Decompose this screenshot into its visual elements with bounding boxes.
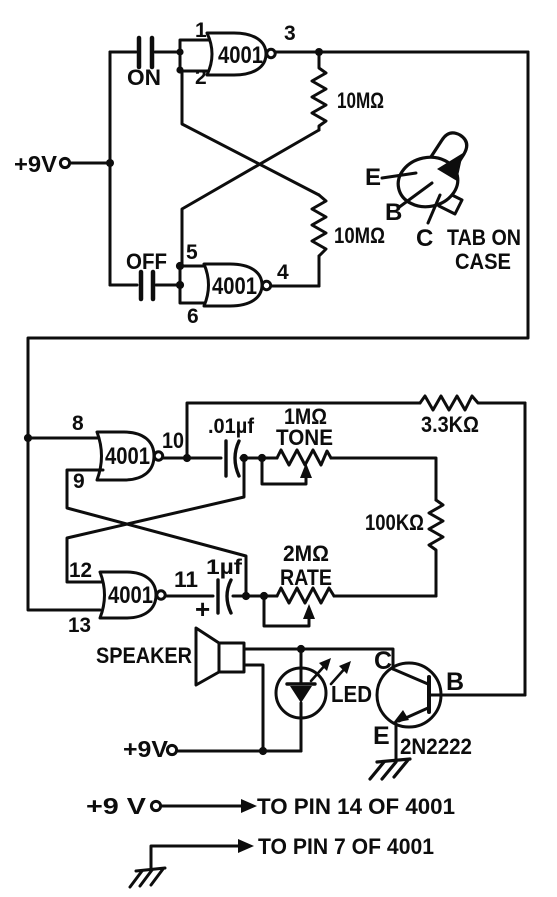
- svg-text:B: B: [385, 199, 402, 226]
- potentiometer 2M RATE: [264, 541, 334, 626]
- wire: pin9 cross W2 to 1uf junction: [67, 470, 246, 596]
- resistor 3.3K: [420, 396, 525, 410]
- wire: cross X1 from gate1 pin2 to R2: [182, 71, 319, 195]
- wire: pin4 output up to R2: [272, 256, 319, 286]
- node: W1 junction: [240, 454, 248, 462]
- node: cap junction: [176, 281, 184, 289]
- capacitor ON: [127, 38, 161, 90]
- svg-text:4001: 4001: [108, 582, 153, 609]
- node: pin8 branch: [24, 434, 32, 442]
- svg-text:SPEAKER: SPEAKER: [96, 643, 192, 668]
- capacitor C2 1uf: [195, 556, 243, 624]
- wire: left supply rail top section: [109, 52, 112, 285]
- svg-text:8: 8: [72, 412, 84, 435]
- wire: OFF cap leads: [110, 284, 178, 287]
- node: riser junction: [183, 454, 191, 462]
- svg-text:C: C: [374, 647, 392, 675]
- speaker: [96, 628, 244, 685]
- op-amp U1c NOR gate 4001: [97, 432, 163, 480]
- svg-text:E: E: [365, 164, 381, 191]
- wire: speaker bottom to +9V rail: [244, 665, 263, 751]
- wire: cross W1 to gate4 pin12: [67, 458, 244, 582]
- wire: pin8: [28, 437, 103, 440]
- svg-text:1µf: 1µf: [206, 556, 243, 579]
- svg-text:9: 9: [73, 470, 85, 493]
- op-amp U1d NOR gate 4001: [100, 572, 165, 618]
- resistor 100K: [429, 500, 443, 596]
- node: RATE wiper junction: [260, 592, 268, 600]
- op-amp U1a NOR gate 4001: [207, 33, 275, 75]
- svg-text:TAB ON: TAB ON: [447, 225, 521, 250]
- svg-text:C: C: [416, 225, 433, 252]
- svg-text:TO PIN 7 OF 4001: TO PIN 7 OF 4001: [258, 834, 434, 859]
- transistor Q1 2N2222: [373, 647, 525, 760]
- ground note: to pin 7: [151, 834, 434, 869]
- svg-text:6: 6: [187, 305, 199, 328]
- svg-text:B: B: [446, 668, 464, 696]
- svg-text:2: 2: [195, 66, 207, 89]
- svg-text:13: 13: [68, 614, 91, 637]
- svg-text:10MΩ: 10MΩ: [337, 88, 384, 113]
- node: speaker return junction: [259, 747, 267, 755]
- wire: gate1 input bracket: [180, 40, 213, 71]
- svg-text:+9V: +9V: [14, 151, 58, 177]
- wire: pin11 output to 1uf: [166, 595, 213, 598]
- wire: RATE to 100K bottom: [334, 595, 436, 598]
- svg-text:11: 11: [174, 567, 198, 592]
- resistor R2 10M: [312, 195, 326, 286]
- svg-text:+9 V: +9 V: [86, 793, 147, 819]
- ground: emitter: [370, 759, 410, 779]
- svg-text:ON: ON: [127, 65, 161, 90]
- wire: gate2 input bracket: [180, 266, 210, 303]
- wire: riser to 3.3K rail: [187, 403, 420, 458]
- svg-text:TO PIN 14 OF 4001: TO PIN 14 OF 4001: [257, 794, 455, 819]
- +9V terminal top: [14, 151, 110, 177]
- svg-text:4001: 4001: [212, 273, 257, 300]
- svg-text:10MΩ: 10MΩ: [334, 223, 385, 248]
- node: supply junction: [106, 159, 114, 167]
- svg-text:3: 3: [284, 22, 296, 45]
- svg-text:5: 5: [186, 241, 198, 264]
- wire: cross X2 from R1 to gate2 pin5: [182, 130, 319, 266]
- wire: cap to RATE pot: [233, 595, 277, 598]
- svg-text:2MΩ: 2MΩ: [283, 541, 329, 566]
- svg-text:4001: 4001: [105, 443, 150, 470]
- wire: speaker top to transistor C: [244, 649, 393, 669]
- svg-text:+9V: +9V: [123, 736, 169, 762]
- node: bracket junction: [176, 48, 183, 55]
- transistor case drawing: [365, 133, 521, 274]
- svg-text:4001: 4001: [218, 42, 263, 69]
- op-amp U1b NOR gate 4001: [204, 264, 271, 306]
- +9 V supply note: [86, 793, 455, 819]
- wire: outer frame right and left rails: [28, 52, 528, 610]
- capacitor C1 .01uf: [208, 415, 255, 476]
- svg-text:TONE: TONE: [276, 425, 333, 450]
- svg-text:2N2222: 2N2222: [400, 734, 472, 759]
- wire: pin3 output to right frame: [276, 51, 528, 54]
- node: pin3/R1 junction: [315, 48, 323, 56]
- node: wiper loop junction: [258, 454, 266, 462]
- node: pin5 junction: [176, 262, 184, 270]
- svg-text:CASE: CASE: [455, 249, 511, 274]
- potentiometer 1M TONE: [262, 404, 333, 484]
- svg-text:12: 12: [69, 559, 92, 582]
- wire: right rail middle section: [431, 403, 525, 695]
- svg-text:10: 10: [162, 428, 184, 453]
- ground symbol bottom: [130, 868, 165, 887]
- wire: cap to TONE pot: [241, 457, 277, 460]
- svg-text:4: 4: [277, 261, 289, 284]
- node: LED top junction: [297, 645, 305, 653]
- +9V terminal bottom: [123, 736, 301, 762]
- svg-text:.01µf: .01µf: [208, 415, 255, 438]
- capacitor OFF: [126, 249, 167, 299]
- svg-text:E: E: [373, 722, 390, 750]
- node: W2 junction: [242, 592, 250, 600]
- svg-text:3.3KΩ: 3.3KΩ: [421, 412, 479, 437]
- svg-text:LED: LED: [331, 681, 372, 707]
- resistor R1 10M: [312, 52, 326, 130]
- wire: TONE to 100K: [331, 458, 436, 500]
- svg-text:100KΩ: 100KΩ: [365, 510, 424, 535]
- svg-text:RATE: RATE: [280, 565, 332, 590]
- LED D1: [276, 649, 326, 751]
- LED arrows: [311, 658, 351, 684]
- wire: pin10 output to .01uf: [163, 457, 221, 460]
- wire: ON cap leads: [110, 51, 180, 54]
- svg-text:OFF: OFF: [126, 249, 167, 274]
- svg-text:1: 1: [195, 19, 207, 42]
- svg-text:+: +: [195, 594, 210, 624]
